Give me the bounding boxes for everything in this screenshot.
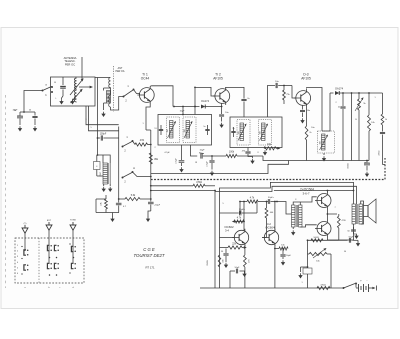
svg-text:3-6-7: 3-6-7	[302, 192, 309, 196]
text osc coil	[100, 171, 102, 176]
wire Tr5 base riser	[262, 230, 267, 238]
capacitor C3	[32, 112, 37, 125]
text ant per oa	[116, 67, 125, 73]
text title model	[133, 253, 164, 258]
svg-text:50: 50	[344, 251, 346, 253]
resistor R1 47ohm	[133, 139, 151, 146]
resistor R8 10k vert	[368, 93, 376, 161]
svg-text:50µF+: 50µF+	[268, 197, 275, 199]
wire antenna lead	[81, 57, 83, 80]
svg-text:-: -	[367, 279, 368, 283]
svg-text:3: 3	[17, 256, 18, 258]
jack J6	[69, 263, 76, 274]
wire main-2 buses	[150, 144, 152, 192]
wire S1 junction	[211, 155, 226, 157]
ground C9	[179, 167, 183, 172]
svg-text:d: d	[72, 287, 73, 289]
wire 150 rail	[348, 93, 352, 169]
svg-text:EXT: EXT	[47, 220, 52, 222]
ground pot	[298, 267, 307, 279]
wire bottom bus	[200, 287, 344, 289]
wire IF1 out b	[191, 145, 198, 156]
switch S2	[122, 136, 134, 153]
capacitor C17 50	[379, 132, 386, 164]
potentiometer VR2 10k	[307, 239, 327, 262]
svg-text:1: 1	[301, 282, 302, 284]
wire coil tap 2	[89, 106, 119, 131]
wire T1 feed	[276, 201, 291, 214]
svg-text:300: 300	[259, 131, 261, 134]
svg-text:300: 300	[319, 141, 321, 144]
svg-text:150Ω: 150Ω	[207, 260, 209, 266]
dashed box IF1a	[167, 117, 180, 143]
resistor R12 4.7k	[232, 217, 245, 224]
transistor Tr5 OC604	[262, 229, 278, 247]
capacitor C4 100pF	[97, 134, 119, 141]
text Tr5 label	[265, 222, 275, 230]
svg-text:10µF: 10µF	[200, 150, 206, 152]
wire junction C2-C3	[20, 111, 35, 113]
arrow L1 tuning	[70, 78, 84, 103]
svg-text:OC604: OC604	[265, 226, 275, 230]
text row numbers	[17, 245, 19, 275]
transformer T1 core	[296, 205, 297, 227]
wire S1a to C2	[24, 91, 43, 113]
ground L4 left	[102, 184, 106, 192]
svg-text:470Ω: 470Ω	[320, 285, 326, 287]
capacitor C8 IF1 right	[203, 125, 209, 135]
capacitor C23 50uF	[339, 237, 360, 247]
wire Tr1 collector	[150, 86, 173, 107]
svg-text:100Ω: 100Ω	[313, 237, 319, 239]
wire vertical main-2	[146, 130, 151, 199]
svg-text:50µF: 50µF	[235, 267, 240, 269]
wire Tr1 emitter	[146, 104, 150, 130]
transformer T2 output p	[352, 204, 355, 224]
resistor R13 400	[265, 202, 274, 231]
box bias	[303, 268, 312, 274]
svg-text:2: 2	[17, 251, 18, 253]
dashed box IF1b	[183, 117, 196, 143]
capacitor C19 50uF	[220, 202, 258, 216]
svg-text:470Ω: 470Ω	[196, 181, 202, 184]
ground C2	[18, 126, 22, 131]
text misc top labels	[13, 82, 92, 129]
ground C11	[210, 171, 214, 176]
svg-text:5: 5	[222, 203, 223, 205]
ground C5 arrow	[110, 213, 114, 223]
arrow L1 coupling	[79, 86, 93, 89]
resistor R19 220 vert	[218, 255, 224, 267]
diode D1 OA174	[201, 99, 222, 109]
wire speaker b	[361, 217, 364, 225]
resistor R11 4.7k	[239, 197, 265, 204]
battery B1	[356, 279, 369, 293]
svg-text:50: 50	[29, 110, 31, 112]
capacitor C14 470pF	[242, 148, 253, 159]
ground L1 coil	[70, 99, 76, 105]
text title rt	[145, 266, 155, 270]
capacitor C13 IF2 left	[231, 127, 235, 137]
arrow IF1b	[184, 121, 193, 138]
wire IF1 pri tap	[180, 107, 185, 116]
ground IF2 out	[263, 148, 267, 156]
wire bus S2	[151, 161, 289, 174]
jack J3	[69, 243, 76, 252]
svg-text:OA174: OA174	[201, 99, 210, 103]
wire Tr4 emitter	[244, 245, 246, 255]
svg-text:10n: 10n	[307, 110, 310, 112]
arrow IF1a	[168, 121, 177, 138]
resistor R9 1k	[381, 114, 388, 132]
capacitor C10 10uF el	[199, 150, 212, 159]
svg-text:1: 1	[374, 97, 375, 99]
svg-text:c: c	[60, 287, 61, 289]
wire Tr5 collector	[274, 201, 276, 231]
resistor R4 39k	[149, 153, 158, 164]
svg-text:50µF: 50µF	[286, 255, 291, 257]
wire Tr2 base rail	[194, 87, 215, 97]
svg-text:3: 3	[85, 119, 86, 121]
transformer T2 core	[357, 204, 358, 224]
wire bus S4	[151, 190, 216, 192]
switch S1b	[123, 85, 135, 103]
wire left rail down	[97, 78, 99, 156]
wire S3 lead	[133, 172, 151, 177]
svg-text:47Ω: 47Ω	[341, 220, 345, 222]
dashed core antenna transformer	[113, 66, 115, 112]
transistor Tr1 OC44	[137, 86, 154, 104]
box IF2	[230, 117, 282, 148]
svg-text:10n: 10n	[225, 112, 228, 114]
svg-text:4.7µF: 4.7µF	[207, 161, 209, 167]
svg-text:50µF: 50µF	[349, 237, 354, 239]
wire Tr2 emitter	[219, 104, 229, 129]
text title cge	[143, 247, 155, 252]
wire L2 mid	[104, 88, 111, 96]
resistor R16 10k	[274, 245, 288, 251]
resistor R7 75k	[283, 90, 291, 104]
capacitor C1 trimmer	[60, 77, 66, 96]
wire audio rail N1	[220, 182, 354, 268]
text misc audio labels	[222, 199, 346, 284]
arrow IF2b	[260, 124, 269, 141]
capacitor C6 50uF	[148, 198, 161, 211]
dashed box IF2a	[237, 120, 250, 146]
diode D2 OA174	[330, 87, 383, 96]
wire bias leads	[307, 267, 309, 288]
wire pot right	[327, 254, 331, 288]
svg-text:OA174: OA174	[335, 87, 344, 91]
wire det right chain	[382, 93, 384, 114]
wire audio rail N2	[215, 186, 357, 268]
page fold line	[5, 95, 7, 288]
svg-text:+50µF: +50µF	[154, 205, 161, 207]
svg-text:AF105: AF105	[301, 77, 311, 81]
plug P2	[46, 222, 52, 230]
wire L2 to switch	[111, 97, 124, 111]
svg-text:47Ω: 47Ω	[140, 139, 145, 142]
jack J2	[47, 245, 59, 251]
wire Tr2 collector	[226, 87, 244, 98]
coil L2b	[109, 95, 111, 107]
box IF1	[158, 115, 212, 146]
svg-text:2n: 2n	[338, 107, 340, 109]
svg-text:3-4: 3-4	[225, 229, 229, 233]
resistor R10 470	[193, 181, 215, 187]
text Tr1 label	[141, 73, 150, 81]
text output label	[300, 188, 314, 196]
wire T1 top	[293, 202, 302, 205]
svg-text:100k: 100k	[229, 151, 235, 154]
ground C1	[59, 96, 63, 105]
svg-text:OSC: OSC	[100, 171, 102, 176]
resistor R5 100k	[226, 151, 263, 158]
arrow L5	[320, 135, 329, 151]
plug P3	[70, 222, 76, 230]
jack J1	[21, 246, 28, 259]
svg-text:10n: 10n	[311, 127, 314, 129]
svg-text:5: 5	[17, 267, 18, 269]
svg-text:OC44: OC44	[141, 77, 150, 81]
capacitor C20 50uF el	[266, 197, 278, 204]
jack dots mid	[49, 257, 75, 276]
capacitor C25 el	[230, 267, 247, 288]
wire pot left down	[307, 254, 309, 268]
text antenna note	[64, 56, 77, 66]
svg-text:8: 8	[257, 152, 258, 154]
wire osc top	[97, 154, 111, 163]
coil L3 winding	[107, 91, 111, 104]
svg-text:100pF: 100pF	[100, 134, 107, 136]
capacitor C7 IF1 left	[154, 125, 163, 135]
capacitor C18 el bus	[364, 160, 370, 171]
capacitor C11 4.7uF	[207, 156, 215, 170]
transistor Tr2 AF105	[213, 87, 230, 105]
wire Tr3 emitter	[300, 106, 310, 124]
wire plug leads	[25, 230, 73, 264]
svg-text:4.7µF: 4.7µF	[164, 152, 170, 154]
ground L5	[322, 153, 326, 162]
ground C3	[33, 126, 37, 131]
wire row A left drop	[239, 202, 241, 214]
svg-text:4.7µF: 4.7µF	[176, 158, 178, 164]
dashed box det coil	[318, 131, 335, 153]
capacitor C2 electrolytic	[14, 110, 23, 125]
wire Tr4 collector	[243, 202, 245, 231]
svg-text:1: 1	[17, 245, 18, 247]
diode D1 OA174 wire	[173, 106, 199, 108]
svg-text:10µF: 10µF	[180, 111, 185, 113]
ground L4 right	[108, 184, 112, 192]
capacitor C16 2nF	[338, 93, 346, 161]
coil L4 osc winding	[103, 163, 110, 184]
ground C14	[250, 159, 254, 164]
plug P1	[22, 225, 28, 233]
wire Tr5 emitter	[274, 245, 276, 288]
arrow IF2a	[238, 124, 247, 141]
resistor R17 47	[337, 214, 345, 240]
jack J4	[21, 265, 28, 275]
resistor R2 47k vert	[96, 195, 119, 213]
wire vertical main-1	[118, 127, 120, 200]
wire out bot	[327, 224, 353, 240]
wire S1b to base	[134, 90, 140, 96]
svg-text:1n: 1n	[203, 126, 205, 128]
text conn labels	[24, 220, 77, 226]
coil L5 det	[319, 134, 325, 150]
wire Tr3 base riser	[292, 86, 296, 99]
wire Tr3 collector	[307, 88, 322, 132]
resistor R15 270	[244, 255, 251, 288]
transformer T1 driver p	[292, 205, 296, 227]
transistor Tr6 OC604	[315, 192, 331, 209]
text Tr2 label	[213, 73, 223, 81]
transformer T1 s	[299, 205, 302, 227]
dashed bus main	[151, 158, 385, 180]
svg-text:32µF: 32µF	[13, 110, 18, 112]
wire IF1 sec tap	[194, 87, 196, 114]
text 150 label	[207, 260, 209, 266]
svg-text:6: 6	[17, 273, 18, 275]
ground L3	[101, 112, 105, 117]
svg-text:PER OA: PER OA	[116, 70, 125, 73]
wire coil feed top	[95, 77, 110, 79]
svg-text:220: 220	[223, 259, 225, 262]
svg-text:150Ω: 150Ω	[348, 163, 350, 169]
svg-text:b: b	[48, 287, 49, 289]
wire Tr4 base	[220, 237, 235, 239]
junction dots det	[342, 92, 370, 94]
wire Tr3 emitter res	[305, 107, 312, 161]
wire audio rail N3	[274, 190, 355, 192]
coil IF1a	[167, 121, 173, 139]
svg-text:A: A	[133, 166, 135, 170]
resistor R18 100	[311, 237, 323, 242]
coil IF2b	[259, 123, 265, 141]
ground T1	[291, 227, 295, 236]
wire bus S2 right	[383, 164, 386, 166]
resistor R20 470	[317, 285, 330, 290]
dashed box IF2b	[259, 120, 272, 146]
dashed box connectors	[15, 238, 84, 283]
capacitor C24	[221, 249, 229, 269]
transistor Tr4 OC602	[232, 229, 248, 247]
ground C6 arrow	[146, 211, 151, 222]
transformer T2 s	[359, 204, 362, 224]
wire bus S1	[263, 156, 369, 161]
wire fb row	[308, 239, 339, 241]
svg-text:2: 2	[335, 102, 336, 104]
capacitor C22 out	[347, 227, 358, 239]
box padder	[94, 162, 101, 170]
switch S1a	[42, 84, 54, 98]
capacitor C21 10uF	[280, 248, 291, 266]
coil IF1b	[184, 121, 190, 139]
text col marks	[24, 287, 73, 289]
speaker LS	[364, 199, 377, 223]
svg-text:1: 1	[142, 123, 143, 125]
svg-text:220Ω: 220Ω	[379, 150, 381, 155]
wire audio feed 470	[150, 185, 193, 187]
wire R7 leg	[283, 85, 285, 90]
potentiometer VR1 5k	[355, 93, 367, 161]
text Tr4 label	[224, 225, 234, 233]
svg-text:300: 300	[238, 131, 240, 134]
capacitor C15 10nF	[275, 81, 292, 88]
svg-text:18: 18	[195, 162, 197, 164]
box tuning L1	[51, 77, 96, 106]
resistor R6 10k agc	[264, 143, 280, 150]
wire coil tap 1	[86, 106, 119, 125]
switch S3	[122, 166, 136, 184]
svg-text:RT 171: RT 171	[145, 266, 155, 270]
svg-text:50µF+: 50µF+	[239, 209, 246, 211]
jack J5	[47, 263, 59, 269]
wire audio rail bottoms	[215, 268, 220, 288]
wire speaker a	[361, 201, 364, 206]
text misc mid labels	[142, 123, 258, 164]
wire L3 to gnd	[104, 103, 107, 110]
svg-text:TOURIST DE2T: TOURIST DE2T	[133, 253, 164, 258]
svg-text:7: 7	[334, 207, 335, 209]
wire padder leads	[97, 155, 103, 176]
resistor R3 5.6k	[118, 194, 151, 201]
svg-text:2: 2	[154, 147, 155, 149]
wire T1 sec top	[302, 197, 317, 202]
svg-text:OC602: OC602	[224, 225, 234, 229]
ground C18	[365, 172, 369, 177]
wire out top	[326, 191, 328, 193]
svg-text:(1): (1)	[24, 223, 27, 225]
wire IF2b top feed	[268, 86, 276, 118]
text misc right labels	[311, 97, 375, 129]
coil L1 ferrite bottom	[75, 90, 77, 102]
wire battery out	[369, 286, 377, 291]
text Tr3 label	[301, 73, 311, 81]
wire T1 sec bot	[300, 225, 316, 227]
transistor Tr3 AF105	[294, 89, 311, 107]
svg-text:PER OC: PER OC	[65, 62, 75, 66]
switch S4 on-off	[343, 283, 358, 290]
transistor Tr7 OC604	[315, 220, 331, 237]
capacitor C12 2nF	[241, 98, 250, 117]
svg-text:AF105: AF105	[213, 77, 223, 81]
coil L1 ferrite top	[75, 78, 77, 89]
svg-text:300: 300	[184, 129, 186, 132]
capacitor C5 el	[116, 199, 127, 213]
svg-text:C G E: C G E	[143, 247, 155, 252]
svg-text:5: 5	[90, 127, 91, 129]
svg-text:300: 300	[167, 129, 169, 132]
capacitor C9 4.7uF	[176, 145, 185, 166]
wire out collectors	[327, 209, 338, 221]
wire det top tap	[322, 93, 330, 131]
coil IF2a	[238, 123, 244, 141]
svg-text:TONO: TONO	[70, 220, 77, 222]
resistor R14 22k	[220, 243, 247, 250]
coil L2a	[109, 78, 111, 88]
